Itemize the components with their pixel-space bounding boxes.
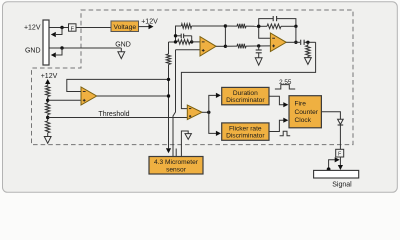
ground arrow (R9) [307,56,309,57]
connector J1 [43,20,49,65]
wire Fire Counter Clock output [321,112,340,120]
wire sensor line V1 lower [168,65,170,149]
wire U3 - rail [259,26,271,38]
op-amp U1 [81,87,97,105]
wire +12V rail to fuse [49,27,111,29]
resistor R2 (divider middle) [46,103,50,115]
wire U4 output [202,111,209,113]
svg-text:sensor: sensor [166,166,187,173]
contact dot on signal bar [327,167,331,171]
capacitor C2 (to ground at U3 +) [258,46,260,50]
wire sensor terminal stub [175,149,177,157]
wire to U2 + input [176,49,201,51]
wire signal to comparator U4 - input [181,42,315,108]
resistor R5 (U2 feedback) [181,24,191,29]
svg-text:4.3 Micrometer: 4.3 Micrometer [154,159,199,166]
junction U3 fb left [257,25,260,28]
voltage regulator box [111,21,139,32]
junction U3 output [294,41,297,44]
junction V1 / U1 output [167,94,170,97]
resistor R1 (divider top) [46,86,50,97]
junction U3 fb right [294,25,297,28]
wire U2 feedback top rail [176,26,182,42]
ground arrow (sensor) [185,134,191,140]
wire V1 stub to RC rail [169,41,176,43]
junction on GND rail [60,46,63,49]
junction C1 left [174,34,177,37]
wire tap to comparator U1 + input [48,99,81,101]
resistor R3 (divider bottom) [46,121,50,133]
ground arrow GND rail [120,48,122,52]
wire U3 fb to output [295,26,297,42]
junction RC output [306,41,309,44]
capacitor C4 (coupling) [300,40,302,45]
wire U2 output [216,45,225,47]
wire branch from signal bar contact [329,160,336,168]
wire to Flicker rate Discriminator [209,112,216,133]
resistor R8 (U3 feedback) [267,24,281,29]
junction U2 fb top [224,24,227,27]
svg-text:Threshold: Threshold [98,111,129,118]
junction on +12V rail [60,26,63,29]
svg-text:Counter: Counter [295,109,319,116]
capacitor C3 (U3 feedback) [259,19,274,27]
op-amp U2 [200,37,216,56]
wire sensor line V2 [173,50,176,157]
svg-text:+12V: +12V [41,73,58,80]
wire RC join to U2 - input [192,36,200,42]
wire sensor line V1 upper [168,42,170,54]
+12V output arrow [139,26,149,28]
junction R10 left [174,40,177,43]
svg-text:Clock: Clock [295,117,312,124]
svg-text:Fire: Fire [295,101,307,108]
svg-text:Discriminator: Discriminator [226,133,265,140]
wire GND rail [49,47,121,49]
wire U1 feedback loop [67,79,169,91]
junction R10 right [190,40,193,43]
svg-text:+12V: +12V [24,25,41,32]
svg-text:Discriminator: Discriminator [226,97,265,104]
node divider upper tap [46,99,49,102]
resistor R7 (row to U3 + input) [225,45,237,47]
wire U2 output to feedback rail [224,26,226,46]
junction U2 output [224,45,227,48]
op-amp U3 [270,33,286,52]
svg-text:GND: GND [115,41,131,48]
wire diode to filter [339,125,341,149]
signal bar connector [314,170,359,178]
Flicker rate Discriminator box [222,123,269,140]
wire Threshold [48,117,188,119]
svg-text:F: F [338,152,341,158]
wire Duration to Fire Counter Clock [269,96,284,105]
resistor R10 (U2 input) [178,40,191,45]
card background [3,2,398,193]
wire U1 output [97,95,169,97]
wire to Duration Discriminator [209,95,216,112]
svg-text:Signal: Signal [332,181,352,188]
svg-text:Flicker rate: Flicker rate [229,125,262,132]
junction V1 / U1 feedback [167,78,170,81]
pulse waveform symbol (duration) [275,85,295,89]
ground arrow (C2) [255,58,262,65]
junction U4 output [207,111,210,114]
resistor R4 (sensor line) [166,54,170,65]
wire filter to signal bar [339,157,341,166]
junction U3 + node [257,44,260,47]
svg-text:GND: GND [25,48,41,55]
capacitor C1 (input, parallel) [176,35,182,37]
node threshold tap [46,116,49,119]
resistor R6 (U3 input top row) [237,24,246,29]
svg-text:Duration: Duration [233,90,258,97]
arrow into sensor [166,148,171,153]
ground arrow (divider) [47,133,49,137]
resistor R9 (to ground) [307,42,309,45]
diode D1 [338,119,344,124]
svg-text:+12V: +12V [141,18,158,25]
filter box F2 [336,149,344,157]
fuse F [69,24,77,31]
wire Flicker to Fire Counter Clock [269,120,284,131]
wire sensor ground stub [181,131,188,157]
+12V up arrow (divider) [45,79,50,84]
pin arrow to connector (+12V) [56,28,62,35]
wire U3 output [286,41,300,43]
dashed enclosure outline [32,10,354,145]
Duration Discriminator box [222,87,269,104]
pin arrow to connector (GND) [56,48,62,55]
Fire Counter Clock box [289,96,321,128]
op-amp U4 [187,105,202,120]
pulse waveform symbol (flicker) [280,131,291,136]
junction U3 - node [257,25,260,28]
svg-text:Voltage: Voltage [113,24,136,31]
4.3 Micrometer sensor box [149,157,203,175]
